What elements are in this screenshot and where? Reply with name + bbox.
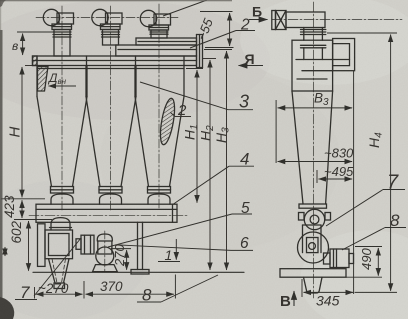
outlet cap cyclone 1 xyxy=(43,9,73,25)
feeder bracket xyxy=(303,225,322,253)
outlet pipe cyclone 2 xyxy=(102,30,120,46)
inlet manifold duct lower xyxy=(116,45,197,56)
leader callout 3 xyxy=(228,109,253,111)
bottom dome cyclone 1 xyxy=(51,194,73,204)
outlet pipe cyclone 1 xyxy=(53,30,71,57)
label Dvn arrow xyxy=(49,85,77,87)
bottom flange cyclone 2 xyxy=(99,187,122,194)
outlet pipe cyclone 3 xyxy=(150,30,168,38)
dim 490 extensions xyxy=(355,246,382,248)
cylinder cyclone 1 xyxy=(37,66,87,97)
leader callout 6 xyxy=(231,249,253,251)
cone bottom flange xyxy=(299,204,327,208)
vortex finder inside xyxy=(296,48,350,79)
centerline cyclone 2 xyxy=(110,6,112,210)
top mounting plate xyxy=(33,56,197,66)
scan artifact top edge xyxy=(0,0,232,1)
leader callout 5 xyxy=(232,213,252,215)
view arrow B top xyxy=(249,19,268,21)
motor dome xyxy=(97,234,112,241)
dim H3 line xyxy=(204,49,232,51)
side view vertical centerline xyxy=(313,2,315,298)
outlet flange cyclone 2 xyxy=(101,24,121,30)
dim ~55 extension lines xyxy=(200,11,233,13)
inlet manifold duct upper xyxy=(136,38,197,45)
ground line xyxy=(33,271,244,273)
stray leader line to cap 3 xyxy=(163,0,207,16)
hatched section lens on cone 3 xyxy=(158,97,178,145)
leader callout 2 top xyxy=(236,30,255,32)
outlet cap cyclone 3 xyxy=(140,10,170,26)
axis through outlet caps xyxy=(36,17,178,19)
dim 345 line xyxy=(304,291,354,293)
view arrow V bottom xyxy=(293,291,295,306)
dim v line xyxy=(22,34,24,56)
scan mottling xyxy=(0,0,270,120)
bottom dome cyclone 2 xyxy=(100,194,122,204)
dim ~270 line xyxy=(36,293,83,295)
dim 345 extensions xyxy=(301,279,303,297)
feeder motor xyxy=(324,249,354,268)
discharge hopper xyxy=(49,259,70,289)
cylinder cyclone 2 xyxy=(86,66,136,97)
dim v at top left: extension line xyxy=(17,31,54,33)
scan artifact top left corner xyxy=(0,0,6,7)
motor body xyxy=(98,241,112,254)
centerline cyclone 1 xyxy=(61,6,63,210)
leader callout 2 lens xyxy=(175,116,191,118)
cone cyclone 3 xyxy=(135,97,184,187)
bottom outlet hopper xyxy=(304,277,323,293)
dim 270 vertical near motor xyxy=(111,248,131,250)
cylinder top flange line xyxy=(37,68,184,70)
dim H line xyxy=(25,65,36,67)
spiral scroll box xyxy=(333,39,355,71)
datum symbol 1 xyxy=(158,261,180,263)
inlet duct xyxy=(286,12,325,28)
dim 490 line xyxy=(377,248,379,276)
bottom flange cyclone 1 xyxy=(51,187,74,194)
outlet flange cyclone 1 xyxy=(52,24,72,30)
elbow flange bands xyxy=(301,28,326,48)
inlet duct end flange xyxy=(197,35,203,68)
view arrow Ya xyxy=(239,65,264,67)
dim H2 line xyxy=(203,58,216,60)
leader callout 8 left xyxy=(137,301,161,303)
dim 370 line xyxy=(86,293,174,295)
dim ~495 line xyxy=(319,178,353,180)
outlet cap cyclone 2 xyxy=(92,9,122,25)
cone cyclone 2 xyxy=(86,97,136,187)
leader callout 4 xyxy=(229,165,254,167)
coupling drum xyxy=(81,235,94,254)
scan artifact bottom left blob xyxy=(0,297,14,319)
cylinder cyclone 3 xyxy=(135,66,184,97)
base plate xyxy=(280,269,346,278)
cyclone body cylinder xyxy=(292,40,333,91)
leader callout 8 right xyxy=(385,227,406,229)
dim bottom extensions xyxy=(34,287,36,299)
dim ~830 line xyxy=(278,161,353,163)
feeder gearbox xyxy=(45,230,73,259)
scan artifact left edge band xyxy=(0,30,3,319)
inlet flange bowtie xyxy=(272,11,286,30)
dim B3 extensions xyxy=(275,100,277,163)
dim H4 extensions xyxy=(327,32,397,34)
side view inlet axis xyxy=(272,19,402,21)
leader callout 7 left xyxy=(15,299,37,301)
rotary feeder circle xyxy=(298,232,329,263)
hatched wall section cyclone 1 xyxy=(38,67,49,92)
dim ~55 line xyxy=(229,13,231,46)
hatched plate end xyxy=(33,56,38,66)
motor centerline xyxy=(104,231,106,273)
dim 423 extensions xyxy=(1,198,45,200)
dim H4 line xyxy=(390,35,392,291)
screw conveyor trough xyxy=(36,204,177,222)
outlet flange cyclone 3 xyxy=(149,25,169,30)
dim H1 line xyxy=(186,68,203,70)
motor base xyxy=(93,265,118,272)
centerline cyclone 3 xyxy=(158,4,160,210)
conveyor axis xyxy=(29,214,187,216)
dim B3 line xyxy=(278,107,353,109)
tiny dim mark bottom left edge xyxy=(4,247,6,256)
side view cone xyxy=(292,91,333,204)
bottom flange cyclone 3 xyxy=(148,187,171,194)
feeder bell xyxy=(50,218,72,230)
motor end circle xyxy=(96,247,114,265)
leader callout 7 right xyxy=(383,189,405,191)
support leg xyxy=(131,222,149,274)
left bearing bracket xyxy=(38,224,46,267)
dim 423 line xyxy=(21,200,23,218)
cone cyclone 1 xyxy=(37,97,87,187)
coupling xyxy=(76,239,81,250)
dim 602 line xyxy=(28,221,30,271)
bottom dome cyclone 3 xyxy=(148,194,170,204)
upper bearing circle xyxy=(299,209,331,229)
